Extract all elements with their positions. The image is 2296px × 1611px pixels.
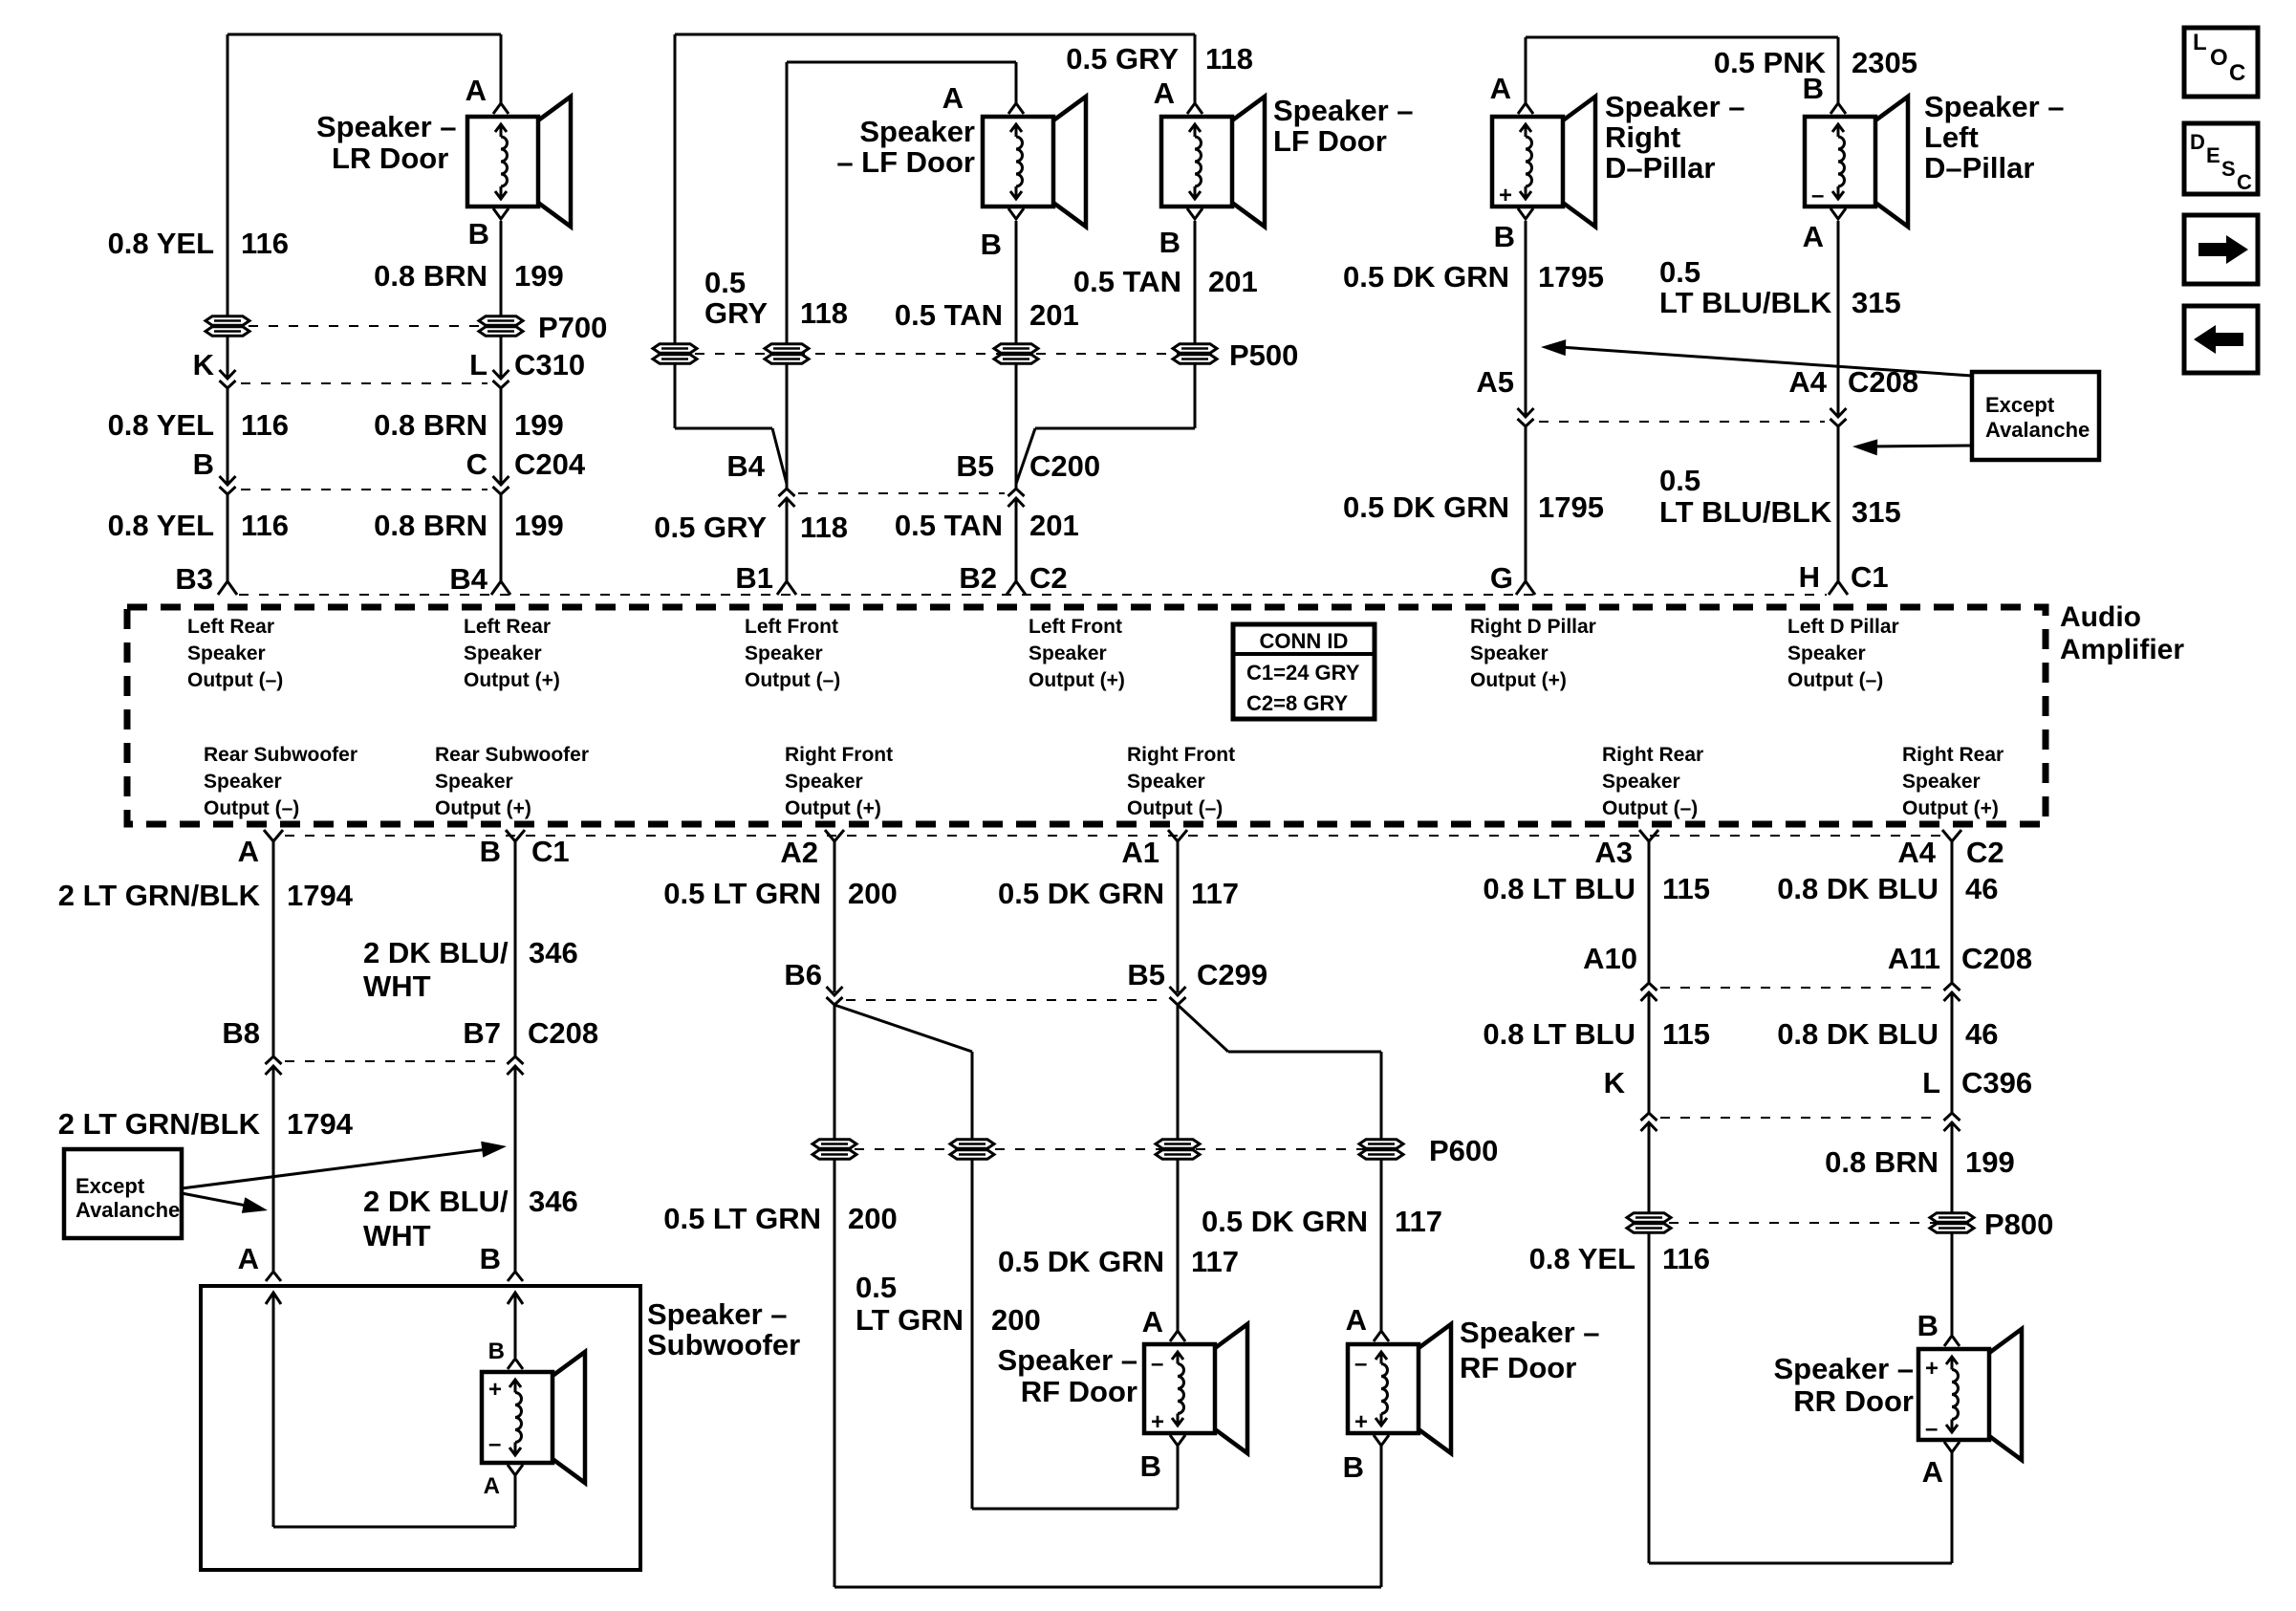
svg-text:B5: B5: [956, 449, 994, 483]
svg-text:C208: C208: [1848, 365, 1918, 399]
svg-text:A3: A3: [1594, 836, 1633, 869]
terminal A fork RR: [1944, 1442, 1960, 1452]
svg-text:117: 117: [1191, 1245, 1239, 1278]
svg-text:B: B: [1917, 1309, 1939, 1342]
svg-text:A: A: [1142, 1305, 1163, 1339]
connector C208b chevrons B8: [266, 1066, 282, 1075]
svg-text:0.5 DK GRN: 0.5 DK GRN: [1343, 260, 1509, 294]
svg-text:P600: P600: [1429, 1134, 1498, 1167]
connector C204 chevrons C: [493, 476, 509, 485]
terminal A chevron LF2: [1187, 103, 1202, 114]
svg-text:Speaker: Speaker: [464, 642, 542, 664]
svg-text:1794: 1794: [287, 1107, 354, 1141]
speaker LR Door: [467, 117, 538, 207]
svg-text:O: O: [2210, 45, 2228, 71]
wire RF2 bottom loop: [1380, 1446, 1383, 1587]
svg-text:0.5 LT GRN: 0.5 LT GRN: [663, 1202, 821, 1235]
wire LF outer top jumper: [675, 33, 1195, 36]
svg-text:315: 315: [1852, 286, 1901, 319]
svg-text:0.8 LT BLU: 0.8 LT BLU: [1483, 872, 1635, 905]
svg-text:0.8 DK BLU: 0.8 DK BLU: [1777, 1017, 1939, 1051]
connector C396 dashed link: [1660, 1117, 1940, 1119]
wire RF1 bottom loop: [1177, 1446, 1180, 1509]
svg-text:Output (–): Output (–): [1127, 797, 1223, 819]
wire B5 diagonal: [1178, 1005, 1228, 1052]
svg-text:Speaker: Speaker: [785, 771, 863, 793]
wire B6 diagonal: [834, 1005, 972, 1052]
svg-text:Speaker –: Speaker –: [1605, 90, 1745, 123]
svg-text:A: A: [1154, 76, 1175, 110]
wire RR bottom loop: [1951, 1452, 1954, 1563]
wire subwoofer left (2 LT GRN/BLK 1794): [272, 841, 275, 1056]
svg-text:0.8 BRN: 0.8 BRN: [374, 259, 487, 293]
speaker Right D-Pillar: [1492, 117, 1563, 207]
svg-text:LR Door: LR Door: [332, 142, 448, 175]
speaker RF Door 2: [1348, 1344, 1419, 1433]
svg-text:0.5 DK GRN: 0.5 DK GRN: [998, 1245, 1164, 1278]
except avalanche box (right): [1972, 372, 2099, 460]
svg-text:Speaker: Speaker: [204, 771, 282, 793]
svg-text:B: B: [193, 447, 214, 481]
svg-text:Audio: Audio: [2060, 601, 2141, 633]
svg-text:0.5 DK GRN: 0.5 DK GRN: [1202, 1205, 1368, 1238]
svg-text:Speaker: Speaker: [859, 115, 975, 148]
connector C208 chevrons A5: [1518, 408, 1534, 417]
connector P500 grommet 1: [653, 344, 697, 353]
connector subwoofer chevrons A: [266, 1272, 281, 1281]
svg-text:B1: B1: [735, 561, 773, 595]
icon left-arrow box: [2184, 306, 2258, 373]
svg-text:Output (+): Output (+): [1029, 669, 1125, 691]
terminal B fork LR Door: [493, 208, 509, 219]
svg-text:B8: B8: [222, 1016, 260, 1050]
svg-text:B: B: [981, 228, 1002, 261]
arrow except-avalanche to B wire: [182, 1148, 495, 1188]
svg-text:–: –: [1925, 1416, 1938, 1442]
svg-text:0.5: 0.5: [704, 266, 746, 299]
speaker RF Door 1: [1144, 1344, 1215, 1433]
svg-text:Speaker: Speaker: [745, 642, 823, 664]
svg-text:Speaker –: Speaker –: [1460, 1316, 1600, 1349]
svg-text:1795: 1795: [1538, 490, 1604, 524]
svg-text:Speaker: Speaker: [435, 771, 513, 793]
connector P700 grommet right: [479, 316, 523, 325]
wire left D-pillar vertical: [1837, 37, 1840, 105]
svg-text:C204: C204: [514, 447, 586, 481]
connector C208 dashed link: [1539, 421, 1825, 423]
terminal B chevron LD: [1830, 103, 1846, 114]
svg-text:Speaker: Speaker: [1787, 642, 1866, 664]
svg-text:E: E: [2206, 143, 2220, 167]
svg-text:LT GRN: LT GRN: [856, 1303, 964, 1337]
svg-text:A11: A11: [1888, 942, 1940, 975]
svg-text:B: B: [488, 1339, 505, 1364]
connector C208c dashed link: [1660, 987, 1940, 989]
svg-text:Avalanche: Avalanche: [76, 1198, 180, 1222]
svg-text:0.5 LT GRN: 0.5 LT GRN: [663, 877, 821, 910]
wire LR-door right branch (0.8 BRN 199): [500, 34, 503, 105]
svg-text:B4: B4: [449, 562, 487, 596]
svg-text:0.8 YEL: 0.8 YEL: [108, 227, 214, 260]
svg-text:Output (–): Output (–): [204, 797, 299, 819]
svg-text:P700: P700: [538, 311, 607, 344]
svg-text:A2: A2: [780, 836, 818, 869]
svg-text:+: +: [1151, 1409, 1164, 1435]
svg-text:B: B: [480, 835, 501, 868]
svg-text:2 LT GRN/BLK: 2 LT GRN/BLK: [58, 1107, 261, 1141]
svg-text:346: 346: [529, 1185, 578, 1218]
svg-text:A4: A4: [1897, 836, 1936, 869]
svg-text:C: C: [2229, 60, 2245, 86]
svg-text:A: A: [1490, 72, 1511, 105]
wire LF speaker2 branch (x1250): [1194, 34, 1197, 105]
svg-text:Speaker: Speaker: [1127, 771, 1205, 793]
svg-text:+: +: [488, 1377, 502, 1403]
svg-text:A: A: [942, 81, 964, 115]
svg-text:201: 201: [1029, 298, 1079, 332]
connector P600 grommet 3: [1156, 1140, 1200, 1148]
svg-text:Output (–): Output (–): [187, 669, 283, 691]
svg-text:Right Rear: Right Rear: [1902, 744, 2004, 766]
svg-text:116: 116: [241, 408, 289, 442]
svg-text:CONN ID: CONN ID: [1260, 629, 1349, 653]
svg-text:0.5: 0.5: [1659, 255, 1700, 289]
svg-text:A5: A5: [1476, 365, 1514, 399]
wire LF speaker2 diagonal to B5: [1016, 428, 1035, 484]
svg-text:L: L: [469, 348, 487, 381]
svg-text:C1: C1: [531, 835, 570, 868]
svg-text:0.8 BRN: 0.8 BRN: [374, 408, 487, 442]
connector C208b dashed link: [285, 1060, 504, 1062]
connector C200 chevrons B5: [1008, 498, 1025, 507]
svg-text:117: 117: [1191, 877, 1239, 910]
svg-text:A10: A10: [1583, 942, 1637, 975]
wire subwoofer bottom loop: [514, 1475, 517, 1527]
svg-text:P800: P800: [1984, 1208, 2053, 1241]
wire LF outer-left diagonal to B4: [772, 428, 787, 484]
svg-text:Output (–): Output (–): [1787, 669, 1883, 691]
svg-text:Left D Pillar: Left D Pillar: [1787, 616, 1899, 638]
svg-text:A: A: [1922, 1455, 1943, 1489]
svg-text:200: 200: [848, 1202, 898, 1235]
svg-text:199: 199: [514, 509, 564, 542]
svg-text:199: 199: [1965, 1145, 2015, 1179]
speaker Left D-Pillar: [1805, 117, 1875, 207]
connector P500 grommet 3: [994, 344, 1038, 353]
connector P500 dashed link: [675, 353, 1195, 355]
svg-text:118: 118: [800, 511, 848, 544]
wire RR A3 branch (0.8 LT BLU 115): [1648, 841, 1651, 983]
connector C396 chevrons K: [1641, 1122, 1657, 1131]
icon LOC box: [2184, 28, 2258, 97]
conn id box: [1233, 624, 1375, 719]
svg-text:Right: Right: [1605, 120, 1680, 154]
svg-text:115: 115: [1662, 872, 1710, 905]
svg-text:C2: C2: [1966, 836, 2004, 869]
terminal B fork LF2: [1187, 208, 1202, 219]
svg-text:Speaker: Speaker: [1470, 642, 1549, 664]
svg-text:Right Front: Right Front: [1127, 744, 1235, 766]
svg-text:B: B: [480, 1242, 501, 1275]
terminal A fork LD: [1830, 208, 1846, 219]
svg-text:G: G: [1490, 561, 1513, 595]
svg-text:Speaker –: Speaker –: [998, 1343, 1138, 1377]
svg-text:46: 46: [1965, 1017, 1998, 1051]
svg-text:0.8 YEL: 0.8 YEL: [108, 408, 214, 442]
svg-text:Output (–): Output (–): [745, 669, 840, 691]
svg-text:1794: 1794: [287, 879, 354, 912]
svg-text:Left: Left: [1924, 120, 1979, 154]
arrow except-avalanche to A wire: [182, 1193, 256, 1208]
svg-text:B3: B3: [175, 562, 213, 596]
svg-text:Avalanche: Avalanche: [1985, 418, 2090, 442]
svg-text:Left Front: Left Front: [1029, 616, 1122, 638]
svg-text:A: A: [466, 74, 487, 107]
terminal A fork SW: [508, 1465, 523, 1475]
svg-text:Rear Subwoofer: Rear Subwoofer: [204, 744, 357, 766]
svg-text:A: A: [484, 1473, 500, 1499]
svg-text:B: B: [1140, 1449, 1161, 1483]
connector C204 chevrons B: [220, 476, 236, 485]
svg-text:K: K: [193, 348, 215, 381]
svg-text:Right Front: Right Front: [785, 744, 893, 766]
svg-text:1795: 1795: [1538, 260, 1604, 294]
svg-text:Speaker: Speaker: [187, 642, 266, 664]
svg-text:WHT: WHT: [363, 969, 431, 1003]
svg-text:A: A: [238, 835, 259, 868]
svg-text:A: A: [1803, 220, 1824, 253]
svg-text:RR Door: RR Door: [1793, 1384, 1914, 1418]
svg-text:117: 117: [1395, 1205, 1442, 1238]
svg-text:A1: A1: [1121, 836, 1159, 869]
svg-text:315: 315: [1852, 495, 1901, 529]
terminal B chevron RR: [1944, 1336, 1960, 1346]
connector C299 chevrons B6: [827, 987, 843, 995]
svg-text:0.5 TAN: 0.5 TAN: [895, 509, 1003, 542]
svg-text:2305: 2305: [1852, 46, 1917, 79]
wire LR-door top jumper: [227, 33, 501, 36]
svg-text:D–Pillar: D–Pillar: [1924, 151, 2034, 185]
svg-text:C2=8 GRY: C2=8 GRY: [1246, 691, 1349, 715]
svg-text:A: A: [1346, 1303, 1367, 1337]
svg-text:K: K: [1604, 1066, 1626, 1099]
svg-text:L: L: [1922, 1066, 1940, 1099]
svg-text:C310: C310: [514, 348, 585, 381]
terminal B chevron SW: [508, 1359, 523, 1369]
connector C310 dashed link: [241, 382, 487, 384]
connector C208b chevrons B7: [508, 1066, 524, 1075]
svg-text:0.5 GRY: 0.5 GRY: [654, 511, 767, 544]
svg-text:Speaker: Speaker: [1602, 771, 1680, 793]
svg-text:0.8 DK BLU: 0.8 DK BLU: [1777, 872, 1939, 905]
svg-text:0.8 YEL: 0.8 YEL: [1529, 1242, 1635, 1275]
wire LF outer-left vertical: [674, 34, 677, 428]
arrow except-avalanche to A4 wire: [1866, 446, 1972, 446]
wire RR A4 branch (0.8 DK BLU 46): [1951, 841, 1954, 983]
svg-text:B: B: [1494, 220, 1515, 253]
amp bottom connector dashed line: [285, 835, 1940, 837]
svg-text:Output (+): Output (+): [464, 669, 560, 691]
connector C200 chevrons B4: [779, 498, 795, 507]
connector P500 grommet 4: [1173, 344, 1217, 353]
connector P600 grommet 1: [812, 1140, 856, 1148]
icon right-arrow box: [2184, 215, 2258, 284]
svg-text:Rear Subwoofer: Rear Subwoofer: [435, 744, 589, 766]
svg-text:Output (+): Output (+): [435, 797, 531, 819]
svg-text:H: H: [1799, 560, 1820, 594]
pin fork A1: [1168, 830, 1187, 841]
speaker Subwoofer: [482, 1372, 552, 1463]
svg-text:Speaker –: Speaker –: [1924, 90, 2065, 123]
speaker RR Door: [1918, 1349, 1989, 1440]
svg-text:B: B: [1803, 72, 1824, 105]
connector P800 dashed link: [1649, 1222, 1952, 1224]
terminal B fork RD: [1518, 208, 1533, 219]
svg-text:C1=24 GRY: C1=24 GRY: [1246, 661, 1360, 685]
wire subwoofer right (2 DK BLU/WHT 346): [514, 841, 517, 1056]
arrow except-avalanche to A5 wire: [1560, 347, 1972, 376]
svg-text:C: C: [2237, 170, 2252, 194]
connector C310 chevrons L: [493, 370, 509, 379]
svg-text:Speaker: Speaker: [1029, 642, 1107, 664]
svg-text:Output (+): Output (+): [1470, 669, 1567, 691]
svg-text:C208: C208: [528, 1016, 598, 1050]
connector C396 chevrons L: [1944, 1122, 1960, 1131]
connector C200 dashed link: [798, 492, 1005, 494]
svg-text:C299: C299: [1197, 958, 1267, 991]
wire RF A2 branch (0.5 LT GRN 200): [834, 841, 836, 992]
connector P700 grommet left: [206, 316, 249, 325]
svg-text:Output (–): Output (–): [1602, 797, 1698, 819]
pin fork B2: [1007, 581, 1026, 595]
svg-text:+: +: [1354, 1409, 1368, 1435]
svg-text:0.5 DK GRN: 0.5 DK GRN: [998, 877, 1164, 910]
wire D-pillar top jumper (0.5 PNK 2305): [1526, 36, 1838, 39]
connector P600 grommet 4: [1359, 1140, 1403, 1148]
svg-text:B4: B4: [726, 449, 765, 483]
pin fork G: [1516, 581, 1535, 595]
svg-text:+: +: [1499, 183, 1512, 208]
svg-text:200: 200: [848, 877, 898, 910]
svg-text:199: 199: [514, 259, 564, 293]
svg-text:LT BLU/BLK: LT BLU/BLK: [1659, 495, 1832, 529]
pin fork B1: [777, 581, 796, 595]
terminal B fork LF1: [1008, 208, 1024, 219]
svg-text:Left Rear: Left Rear: [187, 616, 274, 638]
svg-text:LT BLU/BLK: LT BLU/BLK: [1659, 286, 1832, 319]
connector C208 chevrons A4: [1830, 408, 1847, 417]
connector P700 dashed link: [249, 325, 480, 327]
svg-text:Speaker –: Speaker –: [647, 1297, 788, 1331]
connector P600 dashed link: [834, 1148, 1381, 1150]
wire LF 0.5 GRY 118 vertical (x823): [786, 62, 789, 489]
svg-text:0.5 TAN: 0.5 TAN: [895, 298, 1003, 332]
svg-text:RF Door: RF Door: [1021, 1375, 1137, 1408]
terminal A chevron RF2: [1374, 1331, 1389, 1341]
svg-text:C396: C396: [1961, 1066, 2032, 1099]
except avalanche box (left): [64, 1149, 182, 1238]
svg-text:B7: B7: [463, 1016, 501, 1050]
svg-text:201: 201: [1208, 265, 1258, 298]
svg-text:Left Front: Left Front: [745, 616, 838, 638]
svg-text:RF Door: RF Door: [1460, 1351, 1576, 1384]
svg-text:C1: C1: [1851, 560, 1889, 594]
svg-text:B: B: [468, 217, 489, 250]
svg-text:118: 118: [1205, 42, 1253, 76]
svg-text:LF Door: LF Door: [1273, 124, 1387, 158]
svg-text:Speaker –: Speaker –: [1273, 94, 1414, 127]
svg-text:D: D: [2190, 130, 2205, 154]
pin fork H: [1829, 581, 1848, 595]
svg-text:346: 346: [529, 936, 578, 969]
svg-text:0.5 DK GRN: 0.5 DK GRN: [1343, 490, 1509, 524]
svg-text:2 DK BLU/: 2 DK BLU/: [363, 936, 509, 969]
amp top connector dashed line: [239, 594, 1827, 596]
svg-text:Right Rear: Right Rear: [1602, 744, 1703, 766]
svg-text:C: C: [466, 447, 487, 481]
svg-text:Output (+): Output (+): [1902, 797, 1999, 819]
wire LR-door left branch (0.8 YEL 116): [227, 34, 229, 379]
svg-text:–: –: [1811, 183, 1824, 208]
terminal A chevron LF1: [1008, 103, 1024, 114]
terminal B fork RF1: [1170, 1435, 1185, 1446]
pin fork B (amp): [506, 830, 525, 841]
svg-text:201: 201: [1029, 509, 1079, 542]
svg-text:–: –: [1354, 1351, 1367, 1377]
svg-text:B: B: [1343, 1450, 1364, 1484]
svg-text:– LF Door: – LF Door: [836, 145, 975, 179]
svg-text:B2: B2: [959, 561, 997, 595]
svg-text:S: S: [2221, 157, 2236, 181]
svg-text:C200: C200: [1029, 449, 1100, 483]
connector C310 chevrons K: [220, 370, 236, 379]
connector C299 chevrons B5: [1170, 987, 1186, 995]
pin fork A3: [1639, 830, 1658, 841]
svg-text:116: 116: [241, 509, 289, 542]
svg-text:B: B: [1159, 226, 1180, 259]
connector P800 grommet left: [1627, 1213, 1671, 1222]
wire RF A1 branch (0.5 DK GRN 117): [1177, 841, 1180, 992]
svg-text:P500: P500: [1229, 338, 1298, 372]
svg-text:GRY: GRY: [704, 296, 768, 330]
svg-text:WHT: WHT: [363, 1219, 431, 1252]
svg-text:Except: Except: [76, 1174, 145, 1198]
svg-text:–: –: [488, 1431, 501, 1457]
terminal A chevron RD: [1518, 103, 1533, 114]
svg-text:C2: C2: [1029, 561, 1068, 595]
wire LF inner top jumper: [787, 61, 1016, 64]
svg-text:116: 116: [241, 227, 289, 260]
svg-text:Subwoofer: Subwoofer: [647, 1328, 800, 1361]
terminal B fork RF2: [1374, 1435, 1389, 1446]
svg-text:0.5 GRY: 0.5 GRY: [1066, 42, 1179, 76]
svg-text:115: 115: [1662, 1017, 1710, 1051]
svg-text:200: 200: [991, 1303, 1041, 1337]
pin fork B4: [491, 581, 510, 595]
svg-text:A: A: [238, 1242, 259, 1275]
svg-text:0.5: 0.5: [1659, 464, 1700, 497]
pin fork A4: [1942, 830, 1961, 841]
svg-text:B5: B5: [1127, 958, 1165, 991]
svg-text:L: L: [2193, 30, 2207, 55]
terminal A chevron RF1: [1170, 1331, 1185, 1341]
connector P800 grommet right: [1930, 1213, 1974, 1222]
speaker LF Door 2: [1161, 117, 1232, 207]
svg-text:2 DK BLU/: 2 DK BLU/: [363, 1185, 509, 1218]
svg-text:0.8 YEL: 0.8 YEL: [108, 509, 214, 542]
svg-text:46: 46: [1965, 872, 1998, 905]
subwoofer enclosure box: [201, 1286, 640, 1570]
